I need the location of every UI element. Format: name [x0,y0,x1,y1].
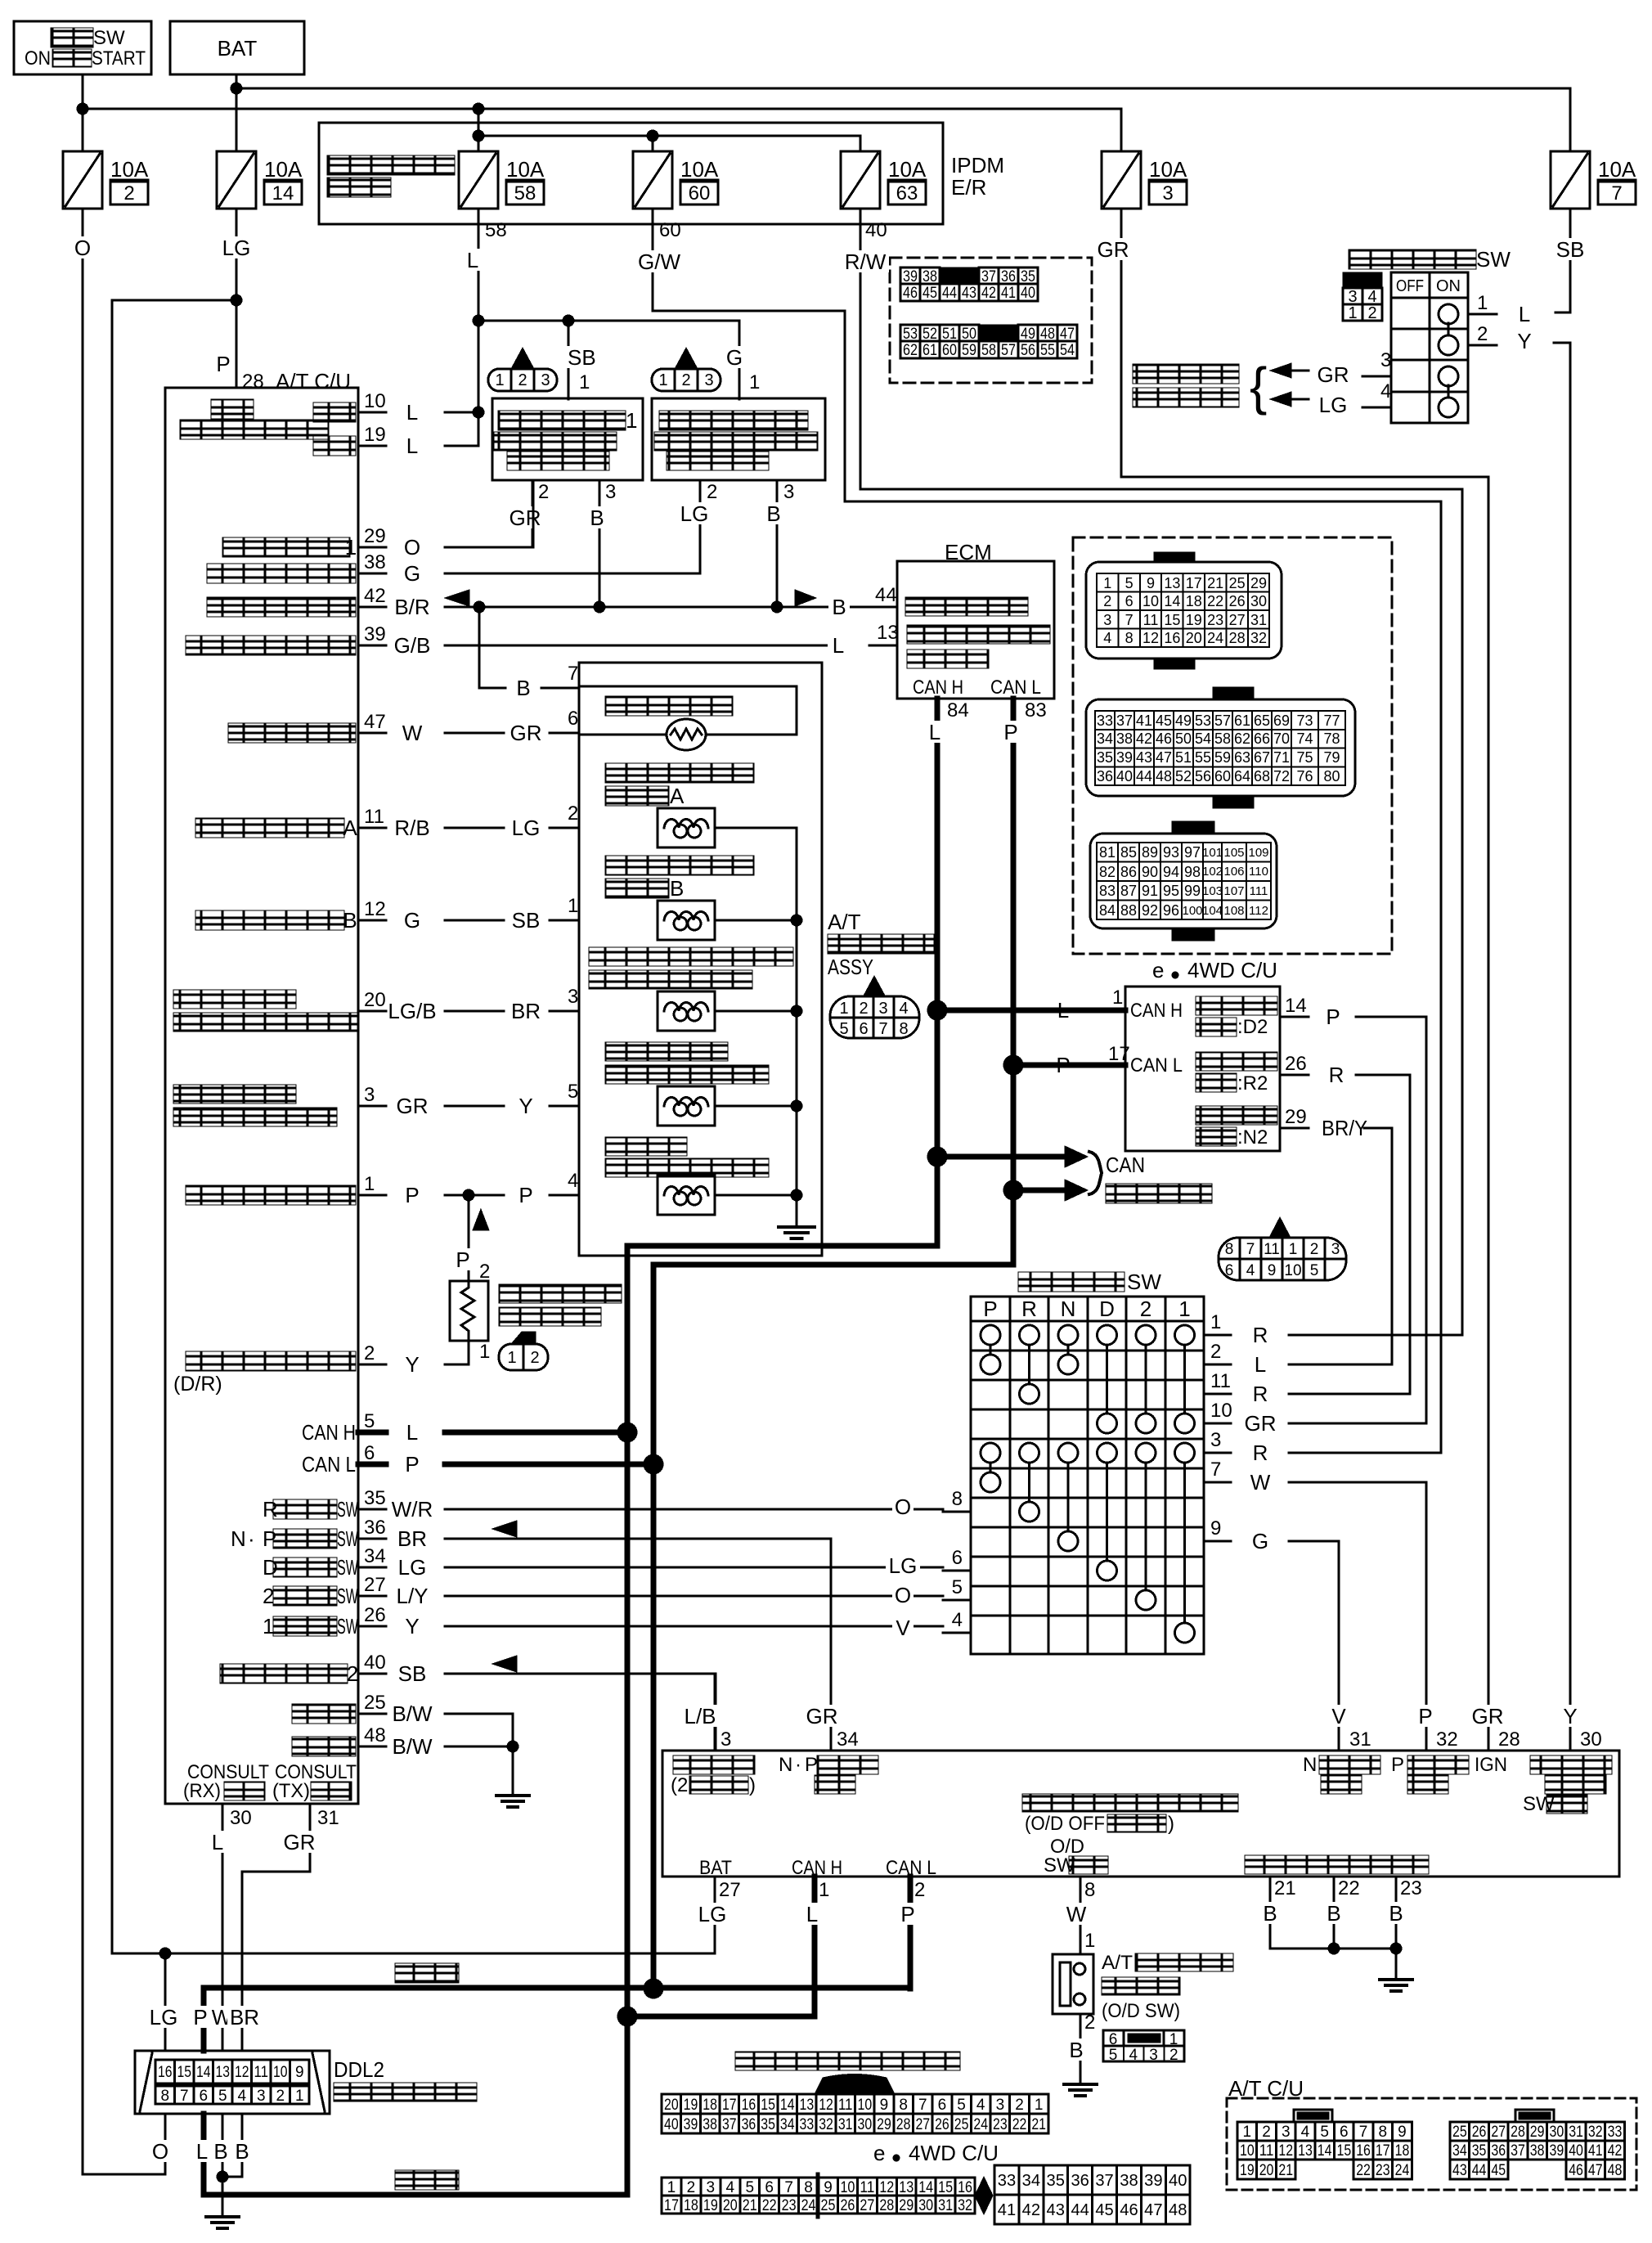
svg-text:11: 11 [838,2097,853,2114]
svg-text:38: 38 [703,2116,717,2133]
svg-text:107: 107 [1223,884,1244,898]
svg-text:12: 12 [1142,630,1159,646]
svg-text:(2: (2 [671,1774,688,1796]
svg-text:29: 29 [1530,2124,1545,2141]
svg-text:60: 60 [1214,768,1231,784]
svg-text:1: 1 [749,371,760,393]
svg-text:52: 52 [1175,768,1192,784]
svg-text:1: 1 [1210,1311,1221,1333]
svg-text:9: 9 [1210,1517,1221,1540]
svg-text:1: 1 [507,1349,516,1367]
svg-text:48: 48 [1608,2162,1623,2179]
svg-text:39: 39 [1116,749,1133,766]
svg-text:16: 16 [158,2064,173,2081]
svg-text:1: 1 [1289,1241,1298,1258]
svg-text:34: 34 [1097,730,1113,747]
svg-text:77: 77 [1323,712,1340,729]
svg-text:B/W: B/W [392,1701,433,1726]
svg-text:8: 8 [1084,1879,1095,1901]
svg-text:7: 7 [180,2088,189,2105]
svg-text:70: 70 [1273,730,1290,747]
svg-text:Y: Y [405,1352,419,1377]
svg-text:P: P [983,1297,997,1321]
svg-text:37: 37 [722,2116,737,2133]
svg-text:41: 41 [1588,2142,1603,2160]
svg-text:A/T: A/T [1102,1952,1133,1974]
svg-text:O: O [152,2139,168,2164]
svg-text:(D/R): (D/R) [173,1373,222,1396]
svg-text:102: 102 [1202,865,1223,879]
svg-text:7: 7 [918,2097,927,2114]
svg-text:): ) [1168,1813,1174,1835]
svg-text:48: 48 [1156,768,1172,784]
svg-text:BR: BR [511,999,541,1023]
svg-text:5: 5 [1320,2124,1329,2141]
svg-text:5: 5 [218,2088,227,2105]
svg-text:25: 25 [364,1692,386,1714]
svg-text:42: 42 [981,285,996,302]
svg-text:6: 6 [938,2097,947,2114]
svg-text:(O/D SW): (O/D SW) [1102,2000,1180,2022]
svg-text:31: 31 [1569,2124,1583,2141]
svg-text:5: 5 [1109,2047,1118,2064]
svg-text:44: 44 [1472,2162,1487,2179]
svg-text:45: 45 [1156,712,1172,729]
svg-text:L: L [406,434,418,458]
svg-text:GR: GR [510,506,541,530]
svg-text:8: 8 [1125,630,1134,646]
svg-text:G/B: G/B [394,633,431,658]
svg-text:26: 26 [1472,2124,1487,2141]
svg-text:14: 14 [1318,2142,1332,2160]
svg-text:43: 43 [1047,2201,1065,2219]
svg-text:14: 14 [918,2179,933,2196]
svg-text:8: 8 [160,2088,169,2105]
svg-text:12: 12 [235,2064,249,2081]
svg-text:GR: GR [1098,237,1129,262]
svg-text:BAT: BAT [218,36,258,61]
svg-text:67: 67 [1254,749,1270,766]
svg-text:1: 1 [1084,1930,1095,1952]
svg-text:CAN H: CAN H [913,676,963,699]
svg-text:27: 27 [364,1574,386,1596]
svg-text:81: 81 [1099,844,1116,861]
svg-text:5: 5 [1125,575,1134,591]
svg-text:N: N [231,1526,246,1551]
svg-text:14: 14 [196,2064,211,2081]
svg-text:30: 30 [1580,1728,1602,1751]
svg-text:BR: BR [230,2005,259,2029]
svg-text:6: 6 [765,2179,774,2196]
svg-text:29: 29 [899,2197,914,2214]
svg-text:(O/D OFF: (O/D OFF [1025,1813,1105,1835]
svg-text:6: 6 [1340,2124,1349,2141]
svg-text:B: B [1327,1901,1340,1926]
svg-text:N: N [1303,1754,1317,1776]
svg-text:13: 13 [1164,575,1180,591]
svg-text:36: 36 [364,1517,386,1539]
svg-text:59: 59 [962,342,976,359]
svg-text:4WD C/U: 4WD C/U [909,2141,999,2165]
svg-text:40: 40 [664,2116,679,2133]
svg-text:10A: 10A [1598,157,1636,182]
svg-text:33: 33 [1097,712,1113,729]
svg-text:4: 4 [899,1000,908,1018]
svg-text:OFF: OFF [1396,277,1424,295]
svg-text:37: 37 [1511,2142,1525,2160]
svg-text:7: 7 [1125,612,1134,628]
svg-text:30: 30 [230,1807,252,1829]
svg-text:G: G [404,561,420,586]
svg-text:57: 57 [1001,342,1016,359]
svg-text:·: · [795,1754,801,1776]
svg-text:108: 108 [1223,904,1244,918]
svg-text:Y: Y [1517,329,1531,353]
svg-text:7: 7 [1359,2124,1368,2141]
svg-text:N: N [779,1754,792,1776]
svg-text:34: 34 [364,1545,386,1567]
svg-text:BR: BR [397,1526,427,1551]
svg-text:1: 1 [667,2179,676,2196]
svg-text:34: 34 [1452,2142,1467,2160]
svg-text:32: 32 [1436,1728,1458,1751]
svg-text:105: 105 [1223,846,1244,860]
svg-text:38: 38 [1116,730,1133,747]
svg-text:6: 6 [364,1442,375,1464]
svg-text:N: N [1061,1297,1076,1321]
svg-text:GR: GR [1245,1411,1277,1436]
svg-text:22: 22 [762,2197,777,2214]
svg-text:CAN H: CAN H [792,1857,842,1879]
svg-text:11: 11 [364,806,384,828]
svg-text:SW: SW [337,1614,358,1638]
svg-text:3: 3 [1162,182,1173,205]
svg-text:R: R [1021,1297,1037,1321]
svg-text:16: 16 [1164,630,1180,646]
svg-text:SB: SB [568,345,596,370]
svg-text:36: 36 [742,2116,756,2133]
svg-text:31: 31 [1250,612,1267,628]
svg-text:60: 60 [689,182,711,205]
svg-text:26: 26 [935,2116,949,2133]
svg-text:54: 54 [1195,730,1211,747]
svg-text:58: 58 [981,342,996,359]
svg-text:L: L [929,720,940,744]
svg-text:CAN L: CAN L [886,1857,936,1879]
svg-text:B: B [1389,1901,1403,1926]
svg-text:(TX): (TX) [272,1780,310,1802]
svg-text:CAN L: CAN L [1130,1054,1183,1077]
svg-text:Y: Y [518,1094,532,1118]
svg-text:72: 72 [1273,768,1290,784]
svg-text:GR: GR [397,1094,429,1118]
svg-text:21: 21 [1278,2162,1293,2179]
svg-text:GR: GR [1318,362,1349,387]
svg-text:26: 26 [364,1604,386,1626]
svg-text:13: 13 [899,2179,914,2196]
svg-text:84: 84 [947,699,969,721]
svg-text:15: 15 [938,2179,953,2196]
svg-text:11: 11 [1210,1370,1231,1392]
svg-text:45: 45 [1095,2201,1113,2219]
svg-text:44: 44 [1071,2201,1089,2219]
svg-text:20: 20 [664,2097,679,2114]
svg-text:e: e [1152,958,1164,982]
svg-text:80: 80 [1323,768,1340,784]
svg-text:V: V [896,1616,910,1640]
svg-text:3: 3 [1331,1241,1340,1258]
svg-text:36: 36 [1071,2172,1089,2190]
svg-text:L/Y: L/Y [396,1584,428,1608]
svg-text:43: 43 [1136,749,1152,766]
svg-text:1: 1 [295,2088,304,2105]
svg-text:R/W: R/W [845,249,887,274]
svg-text:94: 94 [1163,864,1179,880]
svg-text:25: 25 [1452,2124,1467,2141]
svg-text:B/R: B/R [394,595,429,619]
svg-text:SW: SW [1476,247,1511,272]
svg-text:5: 5 [1310,1262,1319,1279]
svg-text:47: 47 [1156,749,1172,766]
svg-text:P: P [805,1754,818,1776]
svg-text:B: B [670,876,684,901]
svg-text:L: L [833,633,844,658]
svg-text:10: 10 [364,390,386,412]
svg-text:1: 1 [1169,2031,1178,2048]
svg-text:28: 28 [1229,630,1246,646]
svg-text:28: 28 [879,2197,894,2214]
svg-text::D2: :D2 [1237,1016,1268,1038]
svg-text:B: B [1263,1901,1277,1926]
svg-text:40: 40 [1169,2172,1187,2190]
svg-text:5: 5 [839,1020,848,1038]
svg-text:4: 4 [952,1609,963,1631]
svg-text:G: G [1252,1529,1268,1553]
svg-text:23: 23 [1376,2162,1390,2179]
svg-text:30: 30 [1250,593,1267,609]
svg-text:P: P [405,1452,419,1477]
svg-text:{: { [1250,357,1267,416]
svg-text:38: 38 [364,551,386,573]
svg-text:W: W [1250,1470,1271,1495]
svg-text:91: 91 [1142,883,1158,899]
svg-text:4WD C/U: 4WD C/U [1187,958,1277,982]
svg-text:12: 12 [819,2097,833,2114]
svg-text:SW: SW [337,1584,358,1608]
svg-text:CAN H: CAN H [302,1420,356,1445]
svg-text:5: 5 [568,1081,578,1103]
svg-text:LG/B: LG/B [388,999,436,1023]
svg-text:19: 19 [1240,2162,1255,2179]
svg-text:2: 2 [123,182,134,205]
svg-text:8: 8 [952,1488,963,1510]
svg-text:23: 23 [782,2197,797,2214]
svg-text:10A: 10A [110,157,149,182]
svg-text:GR: GR [510,721,542,745]
svg-text:41: 41 [998,2201,1016,2219]
svg-text:2: 2 [1015,2097,1024,2114]
svg-text:64: 64 [1234,768,1250,784]
svg-text:e: e [873,2141,885,2165]
svg-text:3: 3 [568,986,578,1008]
svg-text:90: 90 [1142,864,1158,880]
svg-text:4: 4 [976,2097,985,2114]
svg-text:3: 3 [364,1084,375,1106]
svg-text:ON: ON [1436,277,1461,295]
svg-text:8: 8 [804,2179,813,2196]
svg-text:2: 2 [1367,304,1376,322]
svg-text:41: 41 [1001,285,1016,302]
svg-text:48: 48 [1169,2201,1187,2219]
svg-text:9: 9 [1147,575,1155,591]
svg-text:22: 22 [1356,2162,1371,2179]
svg-text:2: 2 [707,481,717,503]
svg-text:18: 18 [684,2197,698,2214]
svg-text:SW: SW [337,1555,358,1580]
svg-text:B: B [213,2139,227,2164]
svg-text:2: 2 [1169,2047,1178,2064]
svg-text:71: 71 [1273,749,1290,766]
svg-text:LG: LG [889,1553,918,1578]
svg-text:17: 17 [1108,1043,1130,1065]
svg-text:5: 5 [957,2097,966,2114]
svg-text:79: 79 [1323,749,1340,766]
svg-text:36: 36 [1097,768,1113,784]
svg-text:3: 3 [541,371,550,389]
svg-text:(RX): (RX) [183,1780,221,1802]
svg-text:93: 93 [1163,844,1179,861]
svg-text:4: 4 [726,2179,735,2196]
svg-text:W: W [402,721,423,745]
svg-text:·: · [248,1526,255,1551]
svg-text:L: L [806,1902,818,1926]
svg-text:2: 2 [681,371,690,389]
svg-text:3: 3 [996,2097,1005,2114]
svg-text:LG: LG [222,236,251,260]
svg-text:29: 29 [877,2116,891,2133]
svg-text:40: 40 [865,219,887,241]
svg-text:2: 2 [479,1261,490,1283]
svg-text:99: 99 [1184,883,1201,899]
svg-text:30: 30 [1550,2124,1564,2141]
svg-text:6: 6 [568,708,578,730]
svg-text:9: 9 [1398,2124,1407,2141]
svg-text:12: 12 [364,898,386,920]
svg-text:37: 37 [1095,2172,1113,2190]
svg-text:1: 1 [1112,987,1123,1009]
svg-text:101: 101 [1202,846,1223,860]
svg-text:1: 1 [819,1879,829,1901]
svg-text:LG: LG [398,1555,427,1580]
svg-text:27: 27 [1229,612,1246,628]
svg-text:27: 27 [860,2197,874,2214]
svg-text:3: 3 [783,481,794,503]
svg-text:SB: SB [398,1661,427,1686]
svg-text:1: 1 [345,535,357,560]
svg-text:1: 1 [1178,1297,1190,1321]
svg-text:46: 46 [1156,730,1172,747]
svg-text:3: 3 [257,2088,266,2105]
svg-text:CAN: CAN [1106,1153,1145,1177]
svg-text:13: 13 [1298,2142,1313,2160]
svg-text:68: 68 [1254,768,1270,784]
svg-text:3: 3 [1103,612,1111,628]
svg-text:D: D [1099,1297,1115,1321]
svg-text:2: 2 [687,2179,696,2196]
svg-text:): ) [749,1774,756,1796]
svg-text:83: 83 [1025,699,1047,721]
svg-text:GR: GR [806,1704,838,1728]
svg-text:2: 2 [538,481,549,503]
svg-text:62: 62 [1234,730,1250,747]
svg-text:24: 24 [973,2116,988,2133]
svg-text:17: 17 [664,2197,679,2214]
svg-text:109: 109 [1248,846,1268,860]
svg-text:88: 88 [1120,902,1137,919]
svg-text:96: 96 [1163,902,1179,919]
svg-text:39: 39 [1144,2172,1162,2190]
svg-text:21: 21 [1031,2116,1046,2133]
svg-text:8: 8 [1378,2124,1387,2141]
svg-text:1: 1 [364,1173,375,1195]
svg-text:CAN L: CAN L [302,1452,356,1477]
svg-text:2: 2 [1084,2012,1095,2034]
svg-text:10: 10 [1240,2142,1255,2160]
svg-text:5: 5 [364,1410,375,1432]
svg-text:10A: 10A [1149,157,1187,182]
svg-text:15: 15 [177,2064,192,2081]
svg-text:16: 16 [1356,2142,1371,2160]
svg-text:P: P [1326,1005,1340,1029]
svg-text:49: 49 [1175,712,1192,729]
svg-text:3: 3 [605,481,616,503]
svg-text:O: O [404,535,420,560]
svg-text:2: 2 [859,1000,868,1018]
svg-text:75: 75 [1296,749,1313,766]
svg-text:A/T C/U: A/T C/U [276,369,351,393]
svg-text:55: 55 [1195,749,1211,766]
svg-text:4: 4 [1103,630,1111,646]
svg-text:13: 13 [877,622,899,644]
svg-text::R2: :R2 [1237,1072,1268,1095]
svg-text:42: 42 [364,585,386,607]
svg-text:SW: SW [1127,1270,1161,1294]
svg-text:18: 18 [1186,593,1202,609]
svg-text:A/T: A/T [828,910,861,934]
svg-text:B: B [343,908,357,933]
svg-text:L: L [1255,1352,1266,1377]
svg-text:89: 89 [1142,844,1158,861]
svg-text:19: 19 [703,2197,718,2214]
svg-text:9: 9 [295,2064,304,2081]
svg-text:B: B [832,595,846,619]
svg-text:B: B [766,501,780,526]
svg-text:LG: LG [150,2005,178,2029]
svg-text:IPDM: IPDM [951,153,1004,178]
svg-text:32: 32 [1588,2124,1603,2141]
svg-text:8: 8 [899,2097,908,2114]
svg-text:R: R [1253,1323,1268,1347]
svg-text:B: B [235,2139,249,2164]
svg-text:31: 31 [317,1807,339,1829]
svg-text:P: P [405,1183,419,1207]
svg-text:42: 42 [1608,2142,1623,2160]
svg-text:35: 35 [1472,2142,1487,2160]
svg-text:LG: LG [512,816,541,840]
svg-text:2: 2 [530,1349,539,1367]
svg-text:61: 61 [923,342,937,359]
svg-text:21: 21 [1207,575,1223,591]
